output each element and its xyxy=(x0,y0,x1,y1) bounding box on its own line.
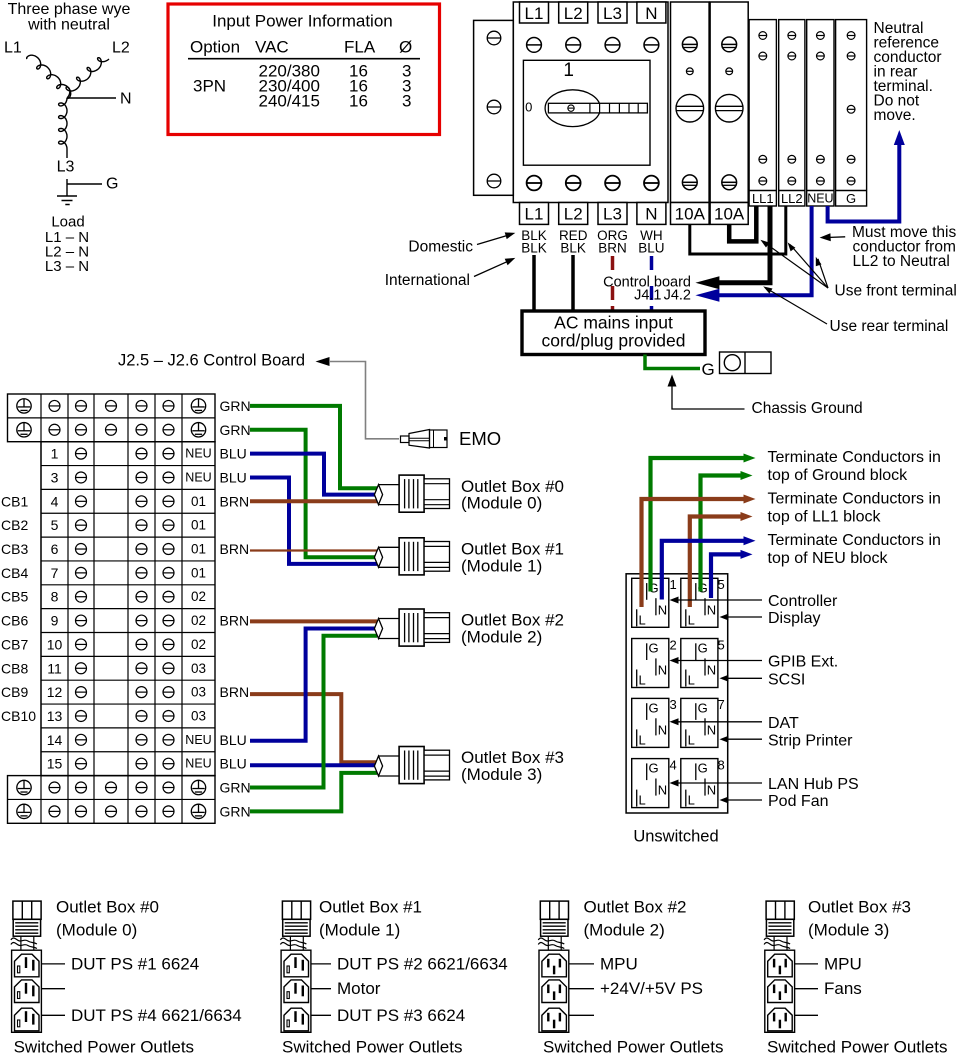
label Domestic xyxy=(408,232,515,255)
svg-text:GRN: GRN xyxy=(220,780,251,796)
svg-text:3: 3 xyxy=(402,92,411,111)
svg-text:NEU: NEU xyxy=(185,757,211,771)
AC mains input box xyxy=(522,311,705,355)
switch actuator box xyxy=(523,60,650,165)
terminal strip LL1 xyxy=(749,20,776,206)
svg-text:G: G xyxy=(698,761,708,776)
unswitched receptacle 5 (right col 5) xyxy=(681,577,725,627)
svg-text:Unswitched: Unswitched xyxy=(633,828,718,846)
terminal row 11 (03) xyxy=(47,660,206,676)
svg-text:CB10: CB10 xyxy=(1,708,36,724)
svg-text:Terminate Conductors in: Terminate Conductors in xyxy=(768,449,941,466)
unswitched receptacle 4 xyxy=(632,757,677,807)
note terminate conductors ground xyxy=(768,449,941,484)
svg-text:15: 15 xyxy=(47,756,63,772)
svg-text:03: 03 xyxy=(191,661,206,676)
svg-text:8: 8 xyxy=(51,589,59,605)
svg-text:3: 3 xyxy=(51,469,59,485)
svg-text:13: 13 xyxy=(47,708,63,724)
unswitched receptacle 8 (right col 8) xyxy=(681,757,725,807)
svg-text:SCSI: SCSI xyxy=(768,671,805,688)
svg-text:7: 7 xyxy=(51,565,59,581)
svg-text:0: 0 xyxy=(525,100,532,115)
label outlet box 1 xyxy=(461,540,564,576)
switch output screws xyxy=(527,176,659,191)
svg-text:L1: L1 xyxy=(525,205,544,224)
svg-text:BRN: BRN xyxy=(220,541,250,557)
outlet box 2 title xyxy=(584,898,687,940)
svg-text:L: L xyxy=(688,612,695,627)
svg-text:top of Ground block: top of Ground block xyxy=(768,467,909,484)
outlet box 0 connector xyxy=(374,475,449,512)
svg-text:3PN: 3PN xyxy=(193,77,226,96)
svg-text:5: 5 xyxy=(718,637,725,652)
winding L2 xyxy=(66,58,109,98)
wire GRN row1 to outlet box 0 xyxy=(250,406,377,488)
wire L1 black to mains cord xyxy=(532,255,536,311)
label Strip Printer xyxy=(720,732,854,749)
svg-text:9: 9 xyxy=(51,613,59,629)
main disconnect switch body xyxy=(513,2,668,203)
svg-text:Ø: Ø xyxy=(399,38,412,57)
label International xyxy=(385,258,516,289)
switch rotary handle xyxy=(545,90,647,127)
svg-text:Outlet Box #2: Outlet Box #2 xyxy=(584,898,687,917)
unswitched receptacle 5 (right col 6) xyxy=(681,637,725,687)
svg-text:DUT PS #4 6621/6634: DUT PS #4 6621/6634 xyxy=(71,1006,242,1025)
fuse F1 10A xyxy=(671,2,710,224)
note terminate conductors NEU xyxy=(768,532,941,567)
svg-text:LAN Hub PS: LAN Hub PS xyxy=(768,776,859,793)
svg-text:Strip Printer: Strip Printer xyxy=(768,732,853,749)
outlet box 3 title xyxy=(808,898,911,940)
svg-text:(Module 2): (Module 2) xyxy=(461,628,542,647)
svg-text:02: 02 xyxy=(191,613,206,628)
svg-text:Switched Power Outlets: Switched Power Outlets xyxy=(543,1038,723,1055)
side terminal block xyxy=(474,20,514,195)
svg-text:MPU: MPU xyxy=(824,954,862,973)
svg-text:11: 11 xyxy=(47,660,62,676)
svg-text:GRN: GRN xyxy=(220,803,251,819)
svg-text:16: 16 xyxy=(349,92,368,111)
svg-text:L: L xyxy=(639,732,646,747)
svg-text:14: 14 xyxy=(47,732,63,748)
svg-text:01: 01 xyxy=(191,565,206,580)
unswitched receptacle 1 xyxy=(632,577,677,627)
svg-text:L: L xyxy=(639,673,646,688)
wire to ground G xyxy=(67,179,102,196)
svg-text:Motor: Motor xyxy=(337,979,381,998)
outlet box 0 cable connector xyxy=(11,901,41,950)
svg-text:G: G xyxy=(846,191,856,206)
svg-text:J4.1: J4.1 xyxy=(634,288,661,304)
svg-text:CB7: CB7 xyxy=(1,636,28,652)
svg-text:Three phase wye: Three phase wye xyxy=(8,1,131,18)
svg-text:G: G xyxy=(702,360,715,379)
load list xyxy=(45,214,89,276)
label Pod Fan xyxy=(720,793,829,810)
svg-text:L2: L2 xyxy=(564,205,583,224)
svg-text:10: 10 xyxy=(47,636,63,652)
svg-text:1: 1 xyxy=(51,446,59,462)
terminal strip G xyxy=(836,20,867,206)
svg-text:G: G xyxy=(698,701,708,716)
terminal row 1 (NEU) xyxy=(51,446,212,462)
svg-text:BRN: BRN xyxy=(220,493,250,509)
svg-text:MPU: MPU xyxy=(600,954,638,973)
svg-text:DAT: DAT xyxy=(768,715,799,732)
winding L3 xyxy=(59,98,67,149)
outlet 1.3 label line xyxy=(311,1006,465,1025)
svg-text:BLK: BLK xyxy=(521,241,547,256)
label outlet box 2 xyxy=(461,611,564,647)
svg-text:NEU: NEU xyxy=(185,470,211,484)
outlet 0.1 label line xyxy=(41,954,199,973)
outlet box 0 strip xyxy=(12,950,42,1032)
svg-text:J2.5 – J2.6 Control Board: J2.5 – J2.6 Control Board xyxy=(118,352,305,370)
svg-text:Outlet Box #1: Outlet Box #1 xyxy=(319,898,422,917)
ground terminal row 1 xyxy=(17,399,206,413)
svg-text:8: 8 xyxy=(718,757,725,772)
svg-text:L1: L1 xyxy=(525,4,544,23)
terminal strip LL2 xyxy=(779,20,805,206)
note: must move this conductor from LL2 to neutral xyxy=(820,224,956,270)
ground terminal row 2 xyxy=(17,423,206,437)
svg-text:Chassis Ground: Chassis Ground xyxy=(752,400,863,417)
wire L3 brown to mains cord xyxy=(611,256,615,311)
label J2.5 - J2.6 control board xyxy=(118,352,330,370)
svg-text:L: L xyxy=(688,732,695,747)
svg-text:NEU: NEU xyxy=(185,733,211,747)
outlet box 1 connector xyxy=(374,538,449,575)
svg-text:GPIB Ext.: GPIB Ext. xyxy=(768,654,838,671)
svg-text:CB5: CB5 xyxy=(1,589,28,605)
svg-text:DUT PS #3 6624: DUT PS #3 6624 xyxy=(337,1006,465,1025)
svg-text:DUT PS #2 6621/6634: DUT PS #2 6621/6634 xyxy=(337,954,508,973)
terminal strip NEU xyxy=(807,20,834,206)
outlet box 3 cable connector xyxy=(764,901,794,950)
input power information table xyxy=(168,4,440,135)
svg-text:GRN: GRN xyxy=(220,398,251,414)
wire BRN row5 to outlet box 0 xyxy=(250,499,377,503)
svg-text:6: 6 xyxy=(51,541,59,557)
svg-text:10A: 10A xyxy=(675,205,706,224)
label outlet box 0 xyxy=(461,477,564,513)
wye source title xyxy=(8,1,131,34)
svg-text:CB9: CB9 xyxy=(1,684,28,700)
EMO connector xyxy=(401,430,448,449)
svg-text:N: N xyxy=(658,602,667,617)
svg-text:Switched Power Outlets: Switched Power Outlets xyxy=(14,1038,194,1055)
svg-text:(Module 0): (Module 0) xyxy=(56,921,137,940)
svg-text:Switched Power Outlets: Switched Power Outlets xyxy=(282,1038,462,1055)
svg-text:N: N xyxy=(658,663,667,678)
svg-text:5: 5 xyxy=(51,517,59,533)
wire BRN row10 to outlet box 2 xyxy=(250,619,377,623)
svg-text:7: 7 xyxy=(718,697,725,712)
svg-text:L: L xyxy=(688,793,695,808)
ground symbol xyxy=(57,196,77,205)
svg-text:L1: L1 xyxy=(4,40,22,57)
svg-text:N: N xyxy=(658,722,667,737)
svg-text:AC mains input: AC mains input xyxy=(554,313,673,333)
outlet box 2 connector xyxy=(374,609,449,646)
svg-text:N: N xyxy=(707,602,716,617)
ground terminal row 17 xyxy=(17,780,206,794)
svg-text:Use rear terminal: Use rear terminal xyxy=(830,318,949,335)
outlet 3.1 label line xyxy=(795,954,862,973)
svg-text:3: 3 xyxy=(670,697,677,712)
svg-text:(Module 3): (Module 3) xyxy=(808,921,889,940)
svg-text:CB1: CB1 xyxy=(1,493,28,509)
svg-text:4: 4 xyxy=(51,493,59,509)
svg-text:Switched Power Outlets: Switched Power Outlets xyxy=(767,1038,947,1055)
svg-text:CB3: CB3 xyxy=(1,541,28,557)
svg-text:BRN: BRN xyxy=(220,684,250,700)
svg-text:(Module 1): (Module 1) xyxy=(461,556,542,575)
outlet 0.2 label line xyxy=(41,988,65,990)
svg-text:Outlet Box #3: Outlet Box #3 xyxy=(808,898,911,917)
label Controller xyxy=(670,593,839,610)
svg-text:G: G xyxy=(649,641,659,656)
outlet box 0 title xyxy=(56,898,159,940)
label chassis ground xyxy=(668,375,863,418)
note: use rear terminal xyxy=(763,286,948,335)
svg-text:L3: L3 xyxy=(603,4,622,23)
svg-text:Use front terminal: Use front terminal xyxy=(835,283,956,300)
svg-text:CB2: CB2 xyxy=(1,517,28,533)
wire green receptacle 1 ground xyxy=(651,458,745,592)
wire BLU row15 to outlet box 2 xyxy=(250,629,377,741)
wire brown receptacle 1 line xyxy=(642,499,745,607)
svg-text:J4.2: J4.2 xyxy=(664,288,691,304)
wire BRN row7 to outlet box 1 xyxy=(250,549,377,551)
svg-text:1: 1 xyxy=(670,577,677,592)
svg-text:LL2 to Neutral: LL2 to Neutral xyxy=(853,253,950,270)
svg-text:with neutral: with neutral xyxy=(27,17,110,34)
terminal row 9 (02) xyxy=(51,613,206,629)
svg-text:L: L xyxy=(639,793,646,808)
svg-text:(Module 0): (Module 0) xyxy=(461,494,542,513)
svg-text:VAC: VAC xyxy=(255,38,289,57)
svg-text:N: N xyxy=(707,783,716,798)
svg-text:CB8: CB8 xyxy=(1,660,28,676)
svg-text:G: G xyxy=(106,176,118,193)
svg-text:5: 5 xyxy=(718,577,725,592)
terminal block table TB1 xyxy=(8,394,216,823)
svg-text:Terminate Conductors in: Terminate Conductors in xyxy=(768,532,941,549)
label LAN Hub PS xyxy=(670,776,859,793)
svg-text:BLU: BLU xyxy=(220,732,247,748)
terminal row 13 (03) xyxy=(47,708,206,724)
note: use front terminal xyxy=(760,240,956,300)
svg-text:L3: L3 xyxy=(57,159,75,176)
label outlet box 3 xyxy=(461,748,564,784)
terminal row 7 (01) xyxy=(51,565,206,581)
svg-text:top of NEU block: top of NEU block xyxy=(768,550,889,567)
svg-text:L2: L2 xyxy=(112,40,130,57)
svg-text:DUT PS #1 6624: DUT PS #1 6624 xyxy=(71,954,199,973)
svg-text:Controller: Controller xyxy=(768,593,838,610)
wire color labels domestic/international xyxy=(521,228,664,256)
wire BLU row16 to outlet box 3 xyxy=(250,763,377,767)
svg-text:Option: Option xyxy=(190,38,240,57)
output terminal labels L1 L2 L3 N xyxy=(520,203,666,225)
wire N blue to mains cord xyxy=(650,256,654,311)
svg-text:01: 01 xyxy=(191,542,206,557)
label GPIB Ext. xyxy=(670,654,839,671)
svg-text:L3 – N: L3 – N xyxy=(45,258,89,275)
svg-text:N: N xyxy=(645,4,657,23)
wire brown receptacle 5 line xyxy=(690,517,741,608)
svg-text:01: 01 xyxy=(191,494,206,509)
outlet 2.1 label line xyxy=(569,954,638,973)
wire fuse F2 to LL1 front terminal xyxy=(729,206,756,241)
svg-text:Input Power Information: Input Power Information xyxy=(212,12,392,31)
terminal row 6 (01) xyxy=(51,541,206,557)
outlet 3.3 label line xyxy=(795,1014,818,1016)
svg-text:L: L xyxy=(639,612,646,627)
svg-text:cord/plug provided: cord/plug provided xyxy=(542,331,686,351)
terminal row 8 (02) xyxy=(51,589,206,605)
unswitched receptacle 3 xyxy=(632,697,677,747)
svg-text:BRN: BRN xyxy=(598,241,627,256)
svg-text:FLA: FLA xyxy=(344,38,376,57)
svg-text:LL2: LL2 xyxy=(781,191,803,206)
wire L2 black to mains cord xyxy=(571,255,575,311)
outlet box 1 strip xyxy=(281,950,311,1032)
terminal row 15 (NEU) xyxy=(47,756,212,772)
terminal row 10 (02) xyxy=(47,636,206,652)
svg-text:Fans: Fans xyxy=(824,979,862,998)
note terminate conductors LL1 xyxy=(768,491,941,526)
svg-text:Pod Fan: Pod Fan xyxy=(768,793,828,810)
outlet box 1 cable connector xyxy=(280,901,310,950)
svg-text:N: N xyxy=(645,205,657,224)
svg-text:Load: Load xyxy=(51,214,84,231)
wire EMO to control board xyxy=(329,362,399,439)
svg-text:BLK: BLK xyxy=(560,241,586,256)
terminal row 3 (NEU) xyxy=(51,469,212,485)
label DAT xyxy=(670,715,800,732)
wire blue receptacle 5 neutral xyxy=(711,554,741,598)
svg-text:CB6: CB6 xyxy=(1,613,28,629)
svg-text:top of LL1 block: top of LL1 block xyxy=(768,509,882,526)
svg-text:Display: Display xyxy=(768,610,820,627)
terminal row 5 (01) xyxy=(51,517,206,533)
wire NEU to control board J4.2 xyxy=(719,206,812,295)
switch input screws xyxy=(527,38,659,53)
svg-text:L3: L3 xyxy=(603,205,622,224)
label Display xyxy=(720,610,821,627)
outlet 1.2 label line xyxy=(311,979,381,998)
wire LL1 to control board J4.1 xyxy=(719,206,770,283)
svg-text:EMO: EMO xyxy=(459,428,501,449)
wire neutral N xyxy=(67,97,116,99)
outlet 1.1 label line xyxy=(311,954,508,973)
wire GRN row17 to outlet box 2 xyxy=(250,636,377,788)
wire BLU row4 to outlet box 1 xyxy=(250,478,377,564)
wire fuse F1 to LL2 front terminal xyxy=(690,206,786,254)
outlet box 3 strip xyxy=(765,950,795,1032)
wire GRN row2 to outlet box 1 xyxy=(250,430,377,558)
label control board J4.1 J4.2 xyxy=(603,275,691,304)
winding L1 xyxy=(27,55,71,98)
svg-text:12: 12 xyxy=(47,684,63,700)
terminal row 14 (NEU) xyxy=(47,732,212,748)
outlet box 2 cable connector xyxy=(538,901,568,950)
svg-text:03: 03 xyxy=(191,708,206,723)
svg-text:03: 03 xyxy=(191,685,206,700)
svg-text:BRN: BRN xyxy=(220,613,250,629)
outlet 2.2 label line xyxy=(569,979,703,998)
terminal row 12 (03) xyxy=(47,684,206,700)
wire L3 tail xyxy=(66,149,68,158)
svg-text:(Module 2): (Module 2) xyxy=(584,921,665,940)
svg-text:BLU: BLU xyxy=(220,756,247,772)
svg-text:GRN: GRN xyxy=(220,422,251,438)
note: neutral reference conductor xyxy=(874,20,942,124)
svg-text:Terminate Conductors in: Terminate Conductors in xyxy=(768,491,941,508)
terminal row 4 (01) xyxy=(51,493,206,509)
wire G strip to neutral-reference note xyxy=(828,140,900,222)
svg-text:CB4: CB4 xyxy=(1,565,28,581)
svg-text:10A: 10A xyxy=(714,205,745,224)
svg-text:(Module 1): (Module 1) xyxy=(319,921,400,940)
wire blue receptacle 1 neutral xyxy=(662,541,744,600)
svg-text:1: 1 xyxy=(563,60,574,81)
svg-text:Outlet Box #0: Outlet Box #0 xyxy=(56,898,159,917)
svg-text:N: N xyxy=(707,663,716,678)
wire BLU row3 to outlet box 0 xyxy=(250,454,377,495)
outlet box 3 connector xyxy=(374,747,449,784)
svg-text:4: 4 xyxy=(670,757,677,772)
fuse F2 10A xyxy=(710,2,748,224)
svg-text:G: G xyxy=(698,641,708,656)
svg-text:01: 01 xyxy=(191,518,206,533)
svg-text:BLU: BLU xyxy=(220,469,247,485)
outlet 3.2 label line xyxy=(795,979,862,998)
ground terminal row 18 xyxy=(17,804,206,818)
outlet 0.3 label line xyxy=(41,1006,241,1025)
wire chassis ground green xyxy=(645,355,700,369)
label SCSI xyxy=(720,671,806,688)
wire BRN row13 to outlet box 3 xyxy=(250,694,377,762)
outlet 2.3 label line xyxy=(569,1014,594,1016)
svg-text:02: 02 xyxy=(191,637,206,652)
outlet box 1 title xyxy=(319,898,422,940)
svg-text:BLU: BLU xyxy=(220,446,247,462)
svg-text:(Module 3): (Module 3) xyxy=(461,765,542,784)
svg-text:G: G xyxy=(649,701,659,716)
input terminal labels L1 L2 L3 N xyxy=(520,2,666,23)
svg-text:+24V/+5V PS: +24V/+5V PS xyxy=(600,979,703,998)
svg-text:240/415: 240/415 xyxy=(259,92,320,111)
svg-text:L: L xyxy=(688,673,695,688)
svg-text:NEU: NEU xyxy=(807,192,833,206)
svg-text:G: G xyxy=(649,761,659,776)
svg-text:Domestic: Domestic xyxy=(408,238,473,255)
svg-text:LL1: LL1 xyxy=(752,191,774,206)
svg-text:International: International xyxy=(385,272,470,289)
chassis ground lug xyxy=(720,352,772,374)
svg-text:NEU: NEU xyxy=(185,447,211,461)
svg-text:BLU: BLU xyxy=(638,241,664,256)
svg-text:2: 2 xyxy=(670,637,677,652)
outlet box 2 strip xyxy=(539,950,569,1032)
svg-text:N: N xyxy=(658,783,667,798)
svg-text:N: N xyxy=(707,722,716,737)
